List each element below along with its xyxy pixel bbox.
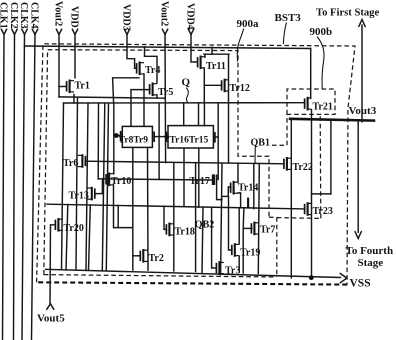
wire vertical v77	[76, 97, 78, 270]
svg-text:Tr4: Tr4	[145, 65, 160, 76]
wire Tr19 source vertical	[238, 256, 240, 272]
wire bus H7	[47, 204, 305, 209]
wire corner from Tr4 source area	[113, 78, 139, 103]
wire Vout2 vertical	[58, 34, 60, 97]
svg-text:Tr18: Tr18	[175, 227, 195, 238]
wire H1 tap to Tr4 Tr5 drains	[145, 47, 158, 83]
transistor Tr17	[190, 174, 216, 187]
transistor Tr4	[135, 62, 161, 77]
wire vertical v118	[117, 206, 119, 228]
svg-text:CLK4: CLK4	[29, 2, 40, 29]
wire loop right vertical	[330, 121, 332, 194]
dashed outer box BST3 sides	[37, 44, 355, 285]
wire vertical v63	[62, 103, 64, 270]
wire CLK2 vertical	[14, 34, 15, 340]
wire thick stub below Tr14	[247, 198, 249, 209]
input chevron VDD4	[188, 29, 193, 34]
wire Tr10 source down with jog	[114, 185, 133, 228]
wire Tr14 drain vertical	[237, 163, 239, 183]
wire Tr2 rail v147	[147, 148, 150, 271]
junction dot Tr23 source at VSS	[309, 275, 314, 280]
leader 900b	[318, 37, 325, 88]
svg-text:Vout5: Vout5	[37, 313, 65, 325]
svg-text:Tr1: Tr1	[75, 81, 90, 92]
wire Tr12 rail vertical	[228, 54, 230, 163]
wire vertical v90	[89, 205, 91, 270]
svg-text:Tr10: Tr10	[111, 176, 131, 187]
dashed inner box 900a	[44, 50, 269, 275]
input chevron VDD3	[124, 29, 129, 34]
wire Tr16 box top left	[183, 103, 185, 126]
wire Tr17 snake	[217, 175, 222, 199]
input chevron CLK3	[22, 29, 27, 34]
input chevron VDD	[72, 29, 77, 34]
wire Tr8 gate lead	[114, 135, 121, 137]
junction dot Tr16 gate	[164, 134, 169, 139]
svg-text:Tr19: Tr19	[240, 248, 260, 259]
svg-text:Tr21: Tr21	[313, 102, 333, 113]
wire Tr11 source down to Q bus	[203, 68, 205, 103]
wire Tr19 drain vertical	[238, 208, 240, 244]
wire Tr7 gate feed vertical	[242, 208, 245, 273]
wire Tr4 source to pair box top	[143, 74, 145, 126]
wire Tr14 gate lead	[228, 187, 231, 196]
svg-text:900a: 900a	[237, 18, 260, 30]
dashed inner box 900a bottom	[44, 275, 277, 277]
svg-text:Vout3: Vout3	[349, 105, 377, 117]
junction dot Tr8 gate	[114, 133, 119, 138]
svg-text:Tr13: Tr13	[69, 191, 89, 202]
transistor Tr6	[63, 154, 85, 169]
wire CLK1 vertical	[3, 34, 5, 340]
svg-text:CLK1: CLK1	[0, 2, 9, 29]
wire Tr16 box bottom right	[198, 148, 200, 207]
wire vertical v68	[66, 205, 68, 270]
svg-text:VDD4: VDD4	[184, 3, 195, 30]
wire Tr3 gate feed	[212, 207, 216, 268]
wire to first stage vertical	[361, 25, 363, 122]
wire H1 tap to Tr11 top	[211, 47, 213, 54]
dashed snake right	[269, 115, 321, 277]
wire vertical v88	[86, 103, 88, 270]
wire Vout3 thick line H4	[290, 119, 374, 121]
wire VDD4 vertical	[191, 34, 197, 62]
wire CLK4 vertical	[32, 34, 36, 340]
svg-text:Tr7: Tr7	[260, 225, 275, 236]
transistor Tr19	[232, 243, 261, 258]
transistor Tr14	[231, 181, 259, 195]
wire Tr14 Tr19 gate node down	[229, 196, 232, 250]
leader Q	[186, 88, 188, 102]
transistor pair Tr16 Tr15	[166, 126, 215, 148]
wire Tr20 gate lead and Vout5 line	[50, 225, 55, 304]
wire Tr11 drain stub up	[204, 54, 206, 57]
wire VDD3 vertical	[127, 34, 135, 68]
wire Tr10 drain vertical	[113, 103, 115, 174]
dashed outer box BST3 bottom	[36, 282, 347, 284]
wire Tr7 gate lead	[243, 227, 252, 229]
wire VDD vertical to Tr1 drain	[74, 34, 76, 78]
input chevron CLK4	[32, 29, 37, 34]
leader QB1	[254, 147, 256, 163]
transistor Tr1	[59, 80, 90, 94]
leader BST3	[283, 23, 286, 44]
svg-text:QB2: QB2	[195, 220, 214, 231]
svg-text:Tr20: Tr20	[64, 223, 84, 234]
transistor Tr18	[166, 223, 194, 238]
transistor Tr22	[284, 157, 313, 173]
transistor Tr3	[216, 261, 240, 276]
transistor Tr11	[198, 56, 226, 73]
wire bus H6	[98, 179, 211, 180]
wire H1 down to Tr21 drain	[310, 49, 312, 99]
wire Tr12 gate lead	[204, 84, 222, 86]
wire to fourth stage vertical	[357, 122, 359, 233]
svg-text:Tr11: Tr11	[206, 61, 226, 72]
transistor pair Tr8 Tr9	[119, 126, 154, 147]
wire Tr22 rail vertical	[290, 119, 292, 278]
transistor Tr20	[55, 218, 83, 234]
transistor Tr21	[305, 97, 333, 113]
transistor Tr12	[222, 79, 250, 94]
svg-text:Q: Q	[182, 77, 191, 89]
transistor Tr23	[305, 202, 333, 217]
svg-text:Tr12: Tr12	[230, 83, 250, 94]
svg-text:Tr22: Tr22	[293, 162, 313, 173]
svg-text:CLK2: CLK2	[8, 2, 19, 29]
wire Tr16 box top right	[198, 103, 200, 126]
wire Tr18 gate feed	[164, 206, 166, 229]
wire Tr14 source jog	[238, 193, 241, 208]
svg-text:Tr5: Tr5	[158, 87, 173, 98]
wire Tr21 source rail down through Tr23 to VSS	[311, 110, 313, 278]
svg-text:VSS: VSS	[350, 278, 371, 290]
svg-text:Vout2: Vout2	[158, 1, 169, 26]
wire Tr14 gate node tie	[222, 195, 228, 197]
wire Q bus H3	[64, 102, 305, 104]
svg-text:Tr3: Tr3	[225, 266, 240, 277]
wire QB2 vertical	[195, 163, 197, 271]
transistor Tr2	[140, 249, 164, 264]
arrowhead VSS	[340, 273, 347, 282]
wire Tr11 top horizontal	[204, 53, 229, 55]
wire gate tie down to QB1 bus	[158, 103, 160, 179]
wire Tr2 gate lead	[133, 255, 141, 257]
svg-text:To Fourth: To Fourth	[346, 245, 394, 257]
wire vertical v105	[102, 103, 105, 270]
svg-text:Tr16Tr15: Tr16Tr15	[170, 136, 209, 146]
transistor Tr7	[251, 222, 275, 236]
svg-text:VDD: VDD	[68, 6, 79, 28]
wire VSS bus H8	[46, 269, 341, 277]
wire vertical v254	[253, 164, 255, 209]
svg-text:QB1: QB1	[251, 138, 270, 149]
wire vertical v98	[97, 103, 99, 179]
svg-text:CLK3: CLK3	[18, 2, 29, 29]
input chevron CLK1	[1, 29, 6, 34]
wire QB1 bus H5	[86, 161, 284, 164]
wire Tr11 source to Tr16 box top	[203, 103, 205, 125]
leader 900a	[237, 29, 243, 61]
svg-text:900b: 900b	[310, 26, 333, 38]
transistor Tr10	[106, 173, 131, 188]
svg-text:Tr8Tr9: Tr8Tr9	[119, 136, 148, 146]
wire Tr5 gate lead	[131, 90, 150, 127]
svg-text:Tr6: Tr6	[63, 158, 78, 169]
svg-text:To First Stage: To First Stage	[316, 8, 379, 19]
svg-text:Tr2: Tr2	[149, 253, 164, 264]
wire Tr9 Tr16 gate tie	[154, 136, 166, 138]
wire pair box bottom left v133	[132, 148, 134, 270]
wire CLK3 horizontal bus H1	[25, 46, 311, 49]
wire Tr13 gate lead	[96, 179, 103, 194]
wire Tr7 rail vertical	[258, 164, 259, 274]
svg-text:Stage: Stage	[358, 257, 384, 269]
output chevron Vout5	[47, 304, 54, 310]
svg-text:Tr14: Tr14	[238, 183, 258, 194]
input chevron CLK2	[12, 29, 17, 34]
wire Vout2 second vertical	[164, 34, 167, 163]
wire Tr15 right gate lead	[216, 136, 219, 138]
wire v222 QB1 to Tr3	[221, 163, 222, 274]
wire vertical v203	[202, 208, 203, 273]
transistor Tr5	[150, 83, 174, 99]
svg-text:Tr17: Tr17	[190, 176, 210, 187]
wire CLK3 vertical	[22, 34, 25, 340]
wire Tr16 box bottom left	[183, 148, 185, 206]
transistor Tr13	[69, 187, 95, 202]
input chevron Vout2 second	[162, 29, 167, 34]
svg-text:VDD3: VDD3	[120, 4, 131, 31]
arrowhead to fourth stage	[355, 232, 361, 239]
wire loop bottom horizontal	[312, 193, 331, 195]
wire Vout2 bus H2	[59, 97, 165, 98]
dashed box 900b	[287, 89, 335, 114]
svg-text:Tr23: Tr23	[313, 206, 333, 217]
wire vertical v108	[106, 103, 108, 270]
arrowhead to first stage	[359, 20, 365, 27]
wire Tr18 rail vertical	[173, 163, 175, 271]
svg-text:BST3: BST3	[275, 12, 302, 24]
svg-text:Vout2: Vout2	[52, 1, 63, 26]
wire Tr1 source down	[73, 95, 75, 104]
input chevron Vout2	[56, 29, 61, 34]
